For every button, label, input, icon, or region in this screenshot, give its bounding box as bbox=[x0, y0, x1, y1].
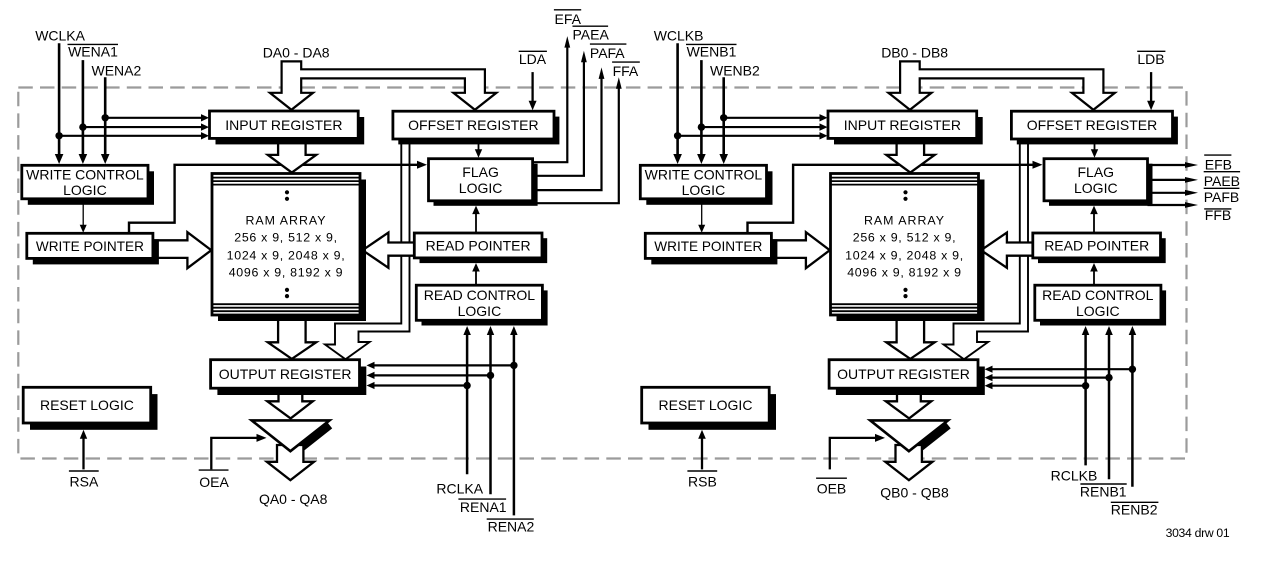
wire WENA1 vertical into WRITE CONTROL LOGIC A bbox=[79, 60, 88, 164]
wire READ CONTROL LOGIC B to READ POINTER B bbox=[1090, 263, 1098, 285]
bus arrow WRITE POINTER B to RAM ARRAY B bbox=[774, 232, 830, 268]
bus arrow DA0 - DA8 to INPUT REGISTER A and OFFSET REGISTER A bbox=[270, 61, 497, 109]
svg-text:QA0 - QA8: QA0 - QA8 bbox=[259, 491, 328, 507]
wire OEA into output buffer A bbox=[211, 434, 266, 470]
bus arrow output buffer A to QA0 - QA8 outputs bbox=[267, 445, 314, 480]
block FLAG LOGIC (port A) bbox=[429, 159, 538, 206]
wire READ POINTER B to FLAG LOGIC B bbox=[1090, 206, 1098, 233]
signal label EFA (active low) bbox=[554, 10, 582, 27]
signal label PAFB (active low) bbox=[1204, 188, 1240, 205]
block READ POINTER (port B) bbox=[1033, 233, 1166, 263]
svg-text:OFFSET REGISTER: OFFSET REGISTER bbox=[408, 117, 538, 133]
wire RENB1 branch to OUTPUT REGISTER B bbox=[985, 374, 1110, 381]
svg-text:PAEB: PAEB bbox=[1204, 173, 1240, 189]
bus arrow OUTPUT REGISTER B to output buffer B bbox=[886, 390, 932, 418]
block OUTPUT REGISTER (port A) bbox=[211, 360, 367, 395]
signal label RENA2 (active low) bbox=[487, 518, 535, 534]
junction WENB1 branch bbox=[698, 123, 705, 130]
wire EFB flag output bbox=[1148, 162, 1199, 168]
svg-text:RENB1: RENB1 bbox=[1080, 484, 1127, 500]
svg-text:RCLKB: RCLKB bbox=[1051, 467, 1098, 483]
tri-state output buffer B bbox=[870, 420, 948, 451]
junction RENA2 branch bbox=[510, 362, 517, 369]
svg-text:WENB1: WENB1 bbox=[687, 44, 737, 60]
wire WCLKA vertical into WRITE CONTROL LOGIC A bbox=[55, 43, 64, 164]
signal label RENA1 (active low) bbox=[458, 499, 506, 515]
svg-text:3034 drw 01: 3034 drw 01 bbox=[1166, 526, 1230, 540]
svg-text:EFB: EFB bbox=[1205, 156, 1232, 172]
svg-text:WENA1: WENA1 bbox=[68, 44, 118, 60]
wire WRITE POINTER B to FLAG LOGIC B bbox=[748, 161, 1043, 234]
svg-text:FFA: FFA bbox=[613, 63, 639, 79]
svg-text:OEA: OEA bbox=[199, 474, 229, 490]
svg-text:LOGIC: LOGIC bbox=[63, 182, 107, 198]
signal label FFA (active low) bbox=[612, 62, 640, 79]
wire RENB2 branch to OUTPUT REGISTER B bbox=[985, 366, 1133, 373]
svg-text:RSB: RSB bbox=[688, 473, 717, 489]
svg-text:WRITE POINTER: WRITE POINTER bbox=[36, 239, 144, 254]
junction RCLKB branch bbox=[1082, 382, 1089, 389]
bus arrow OUTPUT REGISTER A to output buffer A bbox=[267, 390, 313, 418]
wire WENA2 vertical into WRITE CONTROL LOGIC A bbox=[101, 77, 110, 164]
signal label PAFA (active low) bbox=[590, 44, 627, 61]
wire FFA flag output bbox=[533, 77, 622, 203]
wire PAEA flag output bbox=[533, 51, 587, 176]
wire OFFSET REGISTER A to FLAG LOGIC A bbox=[475, 141, 482, 158]
wire RSA into RESET LOGIC A bbox=[80, 430, 87, 470]
bus arrow READ POINTER B to RAM ARRAY B bbox=[981, 233, 1035, 268]
chip boundary (dashed outline) bbox=[18, 88, 1186, 459]
signal label RSB (active low) bbox=[687, 471, 717, 489]
tri-state output buffer A bbox=[252, 420, 330, 451]
svg-text:READ CONTROL: READ CONTROL bbox=[424, 287, 535, 303]
wire WENB1 vertical into WRITE CONTROL LOGIC B bbox=[697, 60, 706, 164]
signal label OEA (active low) bbox=[199, 470, 230, 490]
bus arrow INPUT REGISTER B to RAM ARRAY B bbox=[886, 140, 934, 173]
wire WCLKA branch to INPUT REGISTER A bbox=[59, 132, 209, 139]
bus arrow INPUT REGISTER A to RAM ARRAY A bbox=[268, 140, 316, 173]
tri-state output buffer B (shadow) bbox=[913, 425, 948, 453]
wire RENA2 vertical into READ CONTROL LOGIC A bbox=[510, 326, 517, 515]
svg-text:RCLKA: RCLKA bbox=[436, 480, 483, 496]
svg-text:READ CONTROL: READ CONTROL bbox=[1042, 287, 1153, 303]
wire RENA1 branch to OUTPUT REGISTER A bbox=[367, 372, 491, 379]
svg-text:WENB2: WENB2 bbox=[710, 63, 760, 79]
junction RENB2 branch bbox=[1129, 366, 1136, 373]
wire RSB into RESET LOGIC B bbox=[698, 430, 706, 470]
block READ CONTROL LOGIC (port A) bbox=[416, 285, 547, 325]
wire RCLKA branch to OUTPUT REGISTER A bbox=[367, 382, 468, 389]
junction WENB2 branch bbox=[720, 114, 727, 121]
wire WENA2 branch to INPUT REGISTER A bbox=[105, 114, 209, 121]
block WRITE POINTER (port B) bbox=[645, 233, 777, 264]
block FLAG LOGIC (port B) bbox=[1044, 159, 1153, 206]
bus arrow RAM ARRAY B to OUTPUT REGISTER B bbox=[886, 317, 934, 359]
svg-text:RENA1: RENA1 bbox=[460, 499, 507, 515]
svg-text:DB0 - DB8: DB0 - DB8 bbox=[881, 45, 948, 61]
wire WENA1 branch to INPUT REGISTER A bbox=[83, 123, 209, 130]
svg-text:OUTPUT REGISTER: OUTPUT REGISTER bbox=[837, 366, 970, 382]
svg-text:QB0 - QB8: QB0 - QB8 bbox=[880, 485, 949, 501]
wire RENB2 vertical into READ CONTROL LOGIC B bbox=[1129, 326, 1137, 487]
wire OEB into output buffer B bbox=[830, 434, 885, 470]
block OFFSET REGISTER (port B) bbox=[1011, 111, 1178, 144]
block RESET LOGIC (port B) bbox=[642, 387, 776, 430]
bus wire OFFSET REGISTER B to OUTPUT REGISTER B (bent hollow bus with arrow) bbox=[944, 143, 1029, 359]
junction RENB1 branch bbox=[1105, 374, 1112, 381]
wire EFA flag output bbox=[533, 36, 571, 162]
svg-text:RESET LOGIC: RESET LOGIC bbox=[40, 397, 134, 413]
block READ POINTER (port A) bbox=[414, 233, 547, 263]
wire WENB2 vertical into WRITE CONTROL LOGIC B bbox=[719, 77, 728, 164]
bus arrow WRITE POINTER A to RAM ARRAY A bbox=[155, 232, 211, 268]
wire READ POINTER A to FLAG LOGIC A bbox=[472, 206, 480, 233]
svg-text:WCLKA: WCLKA bbox=[35, 28, 85, 44]
svg-text:WENA2: WENA2 bbox=[92, 63, 142, 79]
svg-text:LDA: LDA bbox=[519, 51, 547, 67]
block OUTPUT REGISTER (port B) bbox=[829, 360, 985, 395]
junction WENA2 branch bbox=[102, 114, 109, 121]
svg-text:RENA2: RENA2 bbox=[488, 518, 535, 534]
svg-text:FLAG: FLAG bbox=[462, 164, 499, 180]
bus arrow output buffer B to QB0 - QB8 outputs bbox=[885, 445, 932, 480]
signal label OEB (active low) bbox=[816, 478, 847, 496]
signal label LDB (active low) bbox=[1137, 51, 1165, 67]
wire WRITE CONTROL LOGIC A to WRITE POINTER A bbox=[80, 199, 87, 233]
junction WCLKA branch bbox=[55, 132, 62, 139]
svg-text:LOGIC: LOGIC bbox=[1076, 303, 1120, 319]
wire LDA into OFFSET REGISTER A bbox=[529, 72, 537, 110]
wire RENA2 branch to OUTPUT REGISTER A bbox=[367, 362, 514, 369]
svg-text:OEB: OEB bbox=[817, 481, 847, 497]
wire FFB flag output bbox=[1148, 202, 1199, 208]
signal label PAEB (active low) bbox=[1204, 172, 1240, 189]
signal label WENB1 (active low) bbox=[686, 44, 737, 60]
signal label LDA (active low) bbox=[519, 51, 547, 67]
wire RENB1 vertical into READ CONTROL LOGIC B bbox=[1105, 326, 1113, 479]
svg-text:RSA: RSA bbox=[70, 473, 99, 489]
block INPUT REGISTER (port B) bbox=[828, 111, 983, 144]
svg-text:1024 x 9, 2048 x 9,: 1024 x 9, 2048 x 9, bbox=[845, 248, 964, 262]
svg-text:WRITE POINTER: WRITE POINTER bbox=[654, 239, 762, 254]
signal label RENB1 (active low) bbox=[1080, 484, 1127, 500]
svg-text:1024 x 9, 2048 x 9,: 1024 x 9, 2048 x 9, bbox=[227, 248, 346, 262]
svg-text:4096 x 9, 8192 x 9: 4096 x 9, 8192 x 9 bbox=[847, 265, 962, 279]
wire WCLKB vertical into WRITE CONTROL LOGIC B bbox=[673, 43, 682, 164]
signal label EFB (active low) bbox=[1204, 155, 1232, 172]
wire WENB1 branch to INPUT REGISTER B bbox=[701, 123, 827, 130]
wire WENB2 branch to INPUT REGISTER B bbox=[724, 114, 828, 121]
svg-text:INPUT REGISTER: INPUT REGISTER bbox=[844, 117, 961, 133]
svg-text:PAFA: PAFA bbox=[590, 45, 625, 61]
wire WRITE POINTER A to FLAG LOGIC A bbox=[129, 161, 427, 234]
bus wire OFFSET REGISTER A to OUTPUT REGISTER A (bent hollow bus with arrow) bbox=[325, 143, 410, 359]
svg-text:LOGIC: LOGIC bbox=[682, 182, 726, 198]
svg-text:OUTPUT REGISTER: OUTPUT REGISTER bbox=[219, 366, 352, 382]
block WRITE CONTROL LOGIC (port A) bbox=[22, 165, 154, 205]
svg-text:READ POINTER: READ POINTER bbox=[426, 238, 531, 254]
svg-text:LOGIC: LOGIC bbox=[1074, 180, 1118, 196]
signal label FFB (active low) bbox=[1204, 207, 1231, 223]
svg-text:OFFSET REGISTER: OFFSET REGISTER bbox=[1027, 117, 1157, 133]
wire WCLKB branch to INPUT REGISTER B bbox=[678, 132, 828, 139]
junction WENA1 branch bbox=[79, 123, 86, 130]
svg-text:LOGIC: LOGIC bbox=[458, 303, 502, 319]
signal label PAEA (active low) bbox=[573, 26, 610, 42]
wire PAFA flag output bbox=[533, 67, 605, 190]
block INPUT REGISTER (port A) bbox=[210, 111, 365, 144]
signal label RSA (active low) bbox=[69, 471, 99, 489]
svg-text:PAFB: PAFB bbox=[1204, 189, 1240, 205]
svg-text:PAEA: PAEA bbox=[573, 27, 610, 43]
block RESET LOGIC (port A) bbox=[23, 387, 157, 430]
bus arrow READ POINTER A to RAM ARRAY A bbox=[363, 233, 417, 268]
svg-text:FLAG: FLAG bbox=[1078, 164, 1115, 180]
wire WRITE CONTROL LOGIC B to WRITE POINTER B bbox=[698, 199, 705, 233]
svg-text:RAM ARRAY: RAM ARRAY bbox=[864, 214, 945, 228]
bus arrow RAM ARRAY A to OUTPUT REGISTER A bbox=[268, 317, 316, 359]
wire RCLKA vertical into READ CONTROL LOGIC A bbox=[463, 326, 471, 474]
wire READ CONTROL LOGIC A to READ POINTER A bbox=[472, 263, 480, 285]
tri-state output buffer A (shadow) bbox=[295, 425, 330, 453]
svg-text:FFB: FFB bbox=[1205, 207, 1231, 223]
svg-text:INPUT REGISTER: INPUT REGISTER bbox=[225, 117, 342, 133]
junction RCLKA branch bbox=[463, 382, 470, 389]
block RAM ARRAY (port A) bbox=[212, 174, 366, 322]
svg-text:LDB: LDB bbox=[1137, 51, 1164, 67]
wire RENA1 vertical into READ CONTROL LOGIC A bbox=[487, 326, 494, 494]
svg-text:RAM ARRAY: RAM ARRAY bbox=[245, 214, 326, 228]
svg-text:RENB2: RENB2 bbox=[1111, 502, 1158, 518]
svg-text:4096 x 9, 8192 x 9: 4096 x 9, 8192 x 9 bbox=[229, 265, 344, 279]
wire RCLKB vertical into READ CONTROL LOGIC B bbox=[1082, 326, 1090, 465]
junction RENA1 branch bbox=[487, 372, 494, 379]
block READ CONTROL LOGIC (port B) bbox=[1035, 285, 1166, 325]
svg-text:WRITE CONTROL: WRITE CONTROL bbox=[645, 167, 763, 183]
svg-text:READ POINTER: READ POINTER bbox=[1044, 238, 1149, 254]
wire PAEB flag output bbox=[1148, 177, 1199, 183]
svg-text:EFA: EFA bbox=[555, 11, 582, 27]
wire RCLKB branch to OUTPUT REGISTER B bbox=[985, 382, 1086, 389]
svg-text:WRITE CONTROL: WRITE CONTROL bbox=[26, 167, 144, 183]
block OFFSET REGISTER (port A) bbox=[393, 111, 560, 144]
junction WCLKB branch bbox=[674, 132, 681, 139]
svg-text:WCLKB: WCLKB bbox=[654, 28, 704, 44]
svg-text:LOGIC: LOGIC bbox=[459, 180, 503, 196]
block RAM ARRAY (port B) bbox=[831, 174, 985, 322]
svg-text:256 x 9, 512 x 9,: 256 x 9, 512 x 9, bbox=[234, 231, 338, 245]
svg-text:DA0 - DA8: DA0 - DA8 bbox=[263, 45, 330, 61]
svg-text:256 x 9, 512 x 9,: 256 x 9, 512 x 9, bbox=[853, 231, 957, 245]
wire PAFB flag output bbox=[1148, 190, 1199, 196]
wire OFFSET REGISTER B to FLAG LOGIC B bbox=[1091, 141, 1098, 158]
svg-text:RESET LOGIC: RESET LOGIC bbox=[659, 397, 753, 413]
wire LDB into OFFSET REGISTER B bbox=[1147, 72, 1155, 110]
block WRITE CONTROL LOGIC (port B) bbox=[640, 165, 772, 205]
signal label WENA1 (active low) bbox=[68, 44, 119, 60]
signal label RENB2 (active low) bbox=[1111, 502, 1159, 518]
bus arrow DB0 - DB8 to INPUT REGISTER B and OFFSET REGISTER B bbox=[888, 61, 1115, 109]
block WRITE POINTER (port A) bbox=[27, 233, 159, 264]
